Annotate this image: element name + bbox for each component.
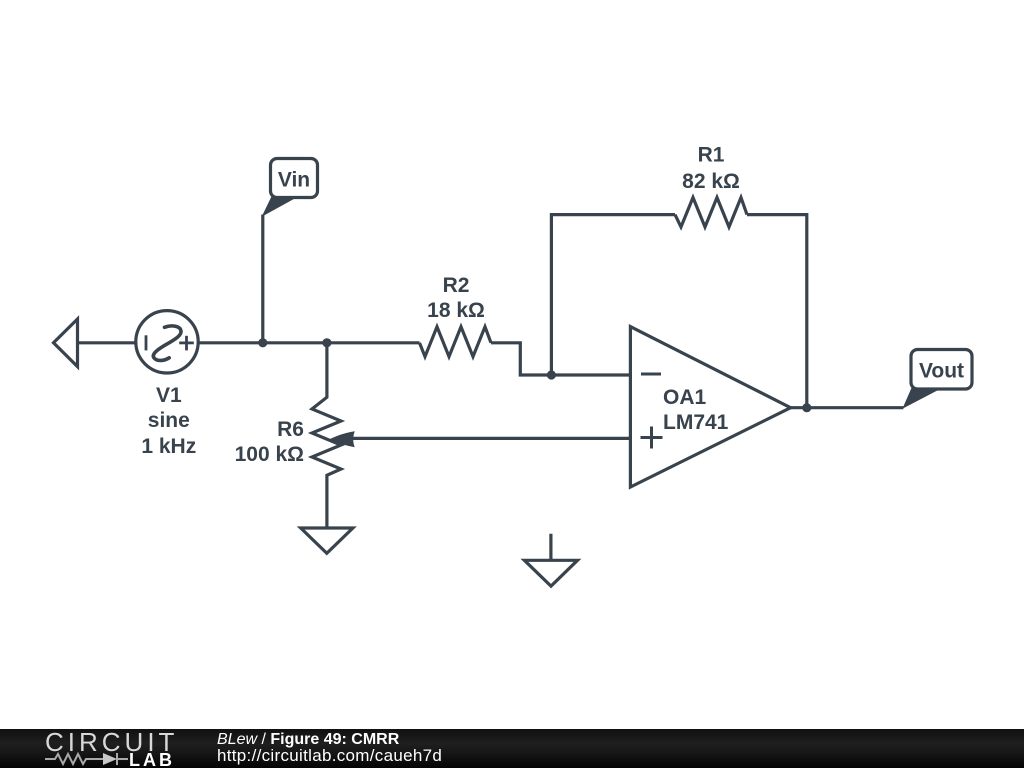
input terminal T1 <box>54 319 78 367</box>
flag Vin <box>263 159 318 216</box>
node junction Vin <box>258 338 267 347</box>
footer title text <box>217 731 399 749</box>
ground GND1 <box>301 528 353 553</box>
svg-text:OA1: OA1 <box>663 386 707 409</box>
node junction R6 top <box>322 338 331 347</box>
potentiometer R6 <box>312 343 341 528</box>
label R2 value <box>427 274 485 322</box>
wiper arrow <box>329 431 355 447</box>
svg-text:82 kΩ: 82 kΩ <box>682 170 740 193</box>
footer bar <box>0 729 1024 768</box>
flag Vout <box>903 350 972 408</box>
node output junction <box>802 403 811 412</box>
label R1 value <box>682 144 740 194</box>
wire Vin drop <box>261 215 264 343</box>
wire feedback left <box>551 215 675 375</box>
svg-text:R1: R1 <box>698 144 725 167</box>
svg-text:Vout: Vout <box>919 360 964 383</box>
svg-text:LAB: LAB <box>129 750 175 768</box>
svg-text:1 kHz: 1 kHz <box>141 435 196 458</box>
svg-text:R2: R2 <box>443 274 470 297</box>
svg-text:sine: sine <box>148 409 190 432</box>
label V1 value <box>141 384 196 458</box>
svg-text:100 kΩ: 100 kΩ <box>235 443 304 466</box>
footer url text <box>217 746 442 766</box>
wire <box>78 341 137 344</box>
wire output <box>791 406 904 409</box>
resistor R1 <box>675 198 747 228</box>
wire feedback right <box>747 215 807 408</box>
ground GND2 <box>524 534 577 586</box>
svg-text:R6: R6 <box>277 418 304 441</box>
label R6 value <box>235 418 304 466</box>
wiper wire to op-amp plus <box>345 437 630 440</box>
svg-text:V1: V1 <box>156 384 182 407</box>
voltage source V1 <box>136 311 198 373</box>
svg-text:18 kΩ: 18 kΩ <box>427 299 485 322</box>
wire <box>198 341 420 344</box>
node feedback junction <box>547 370 556 379</box>
wire R2 to op-amp minus <box>491 343 630 375</box>
resistor R2 <box>420 327 492 357</box>
svg-text:Vin: Vin <box>278 169 310 192</box>
op-amp OA1 <box>630 327 790 487</box>
svg-text:LM741: LM741 <box>663 411 729 434</box>
logo CircuitLab <box>0 729 200 768</box>
